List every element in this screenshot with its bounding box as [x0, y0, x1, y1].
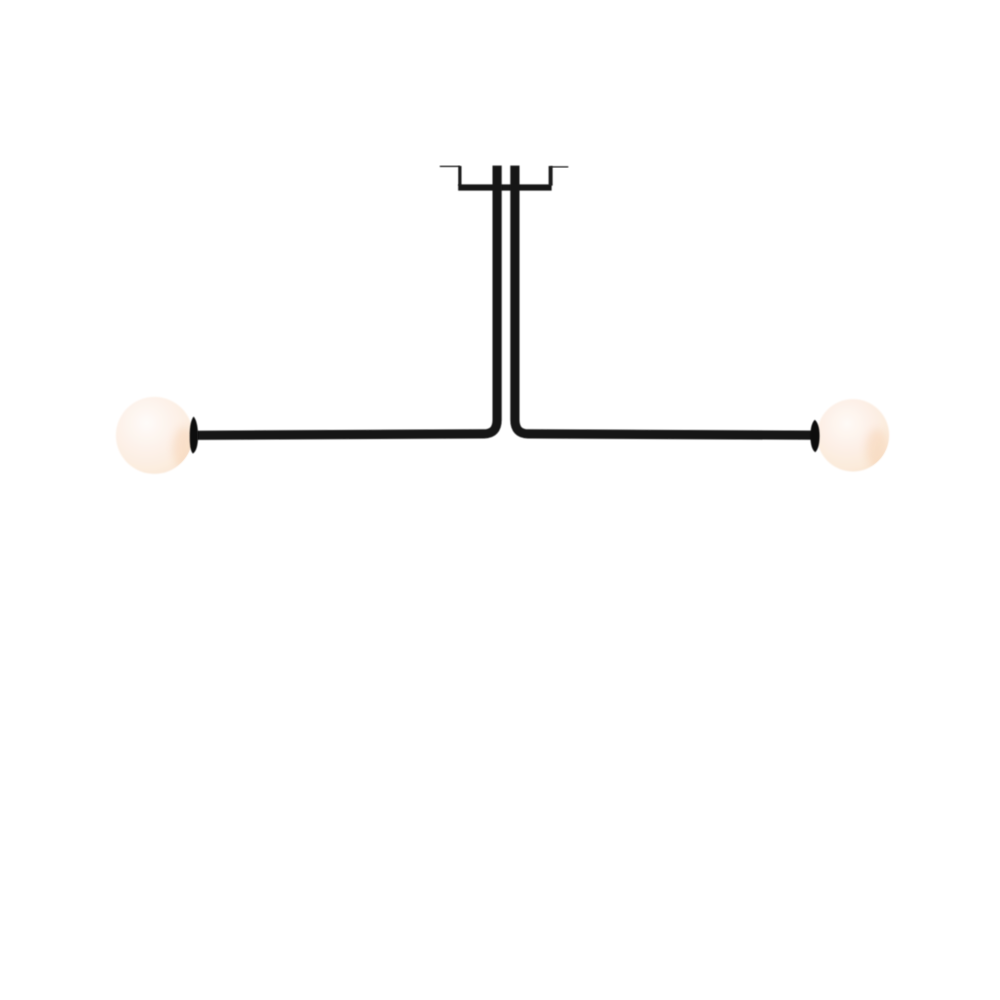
left globe [116, 397, 193, 474]
ceiling bracket crossbar [458, 184, 551, 190]
right stem and arm [515, 166, 813, 436]
left stem and arm [197, 166, 497, 436]
ceiling bracket right vertical [549, 166, 553, 186]
right globe [817, 399, 889, 471]
right socket [810, 420, 819, 453]
left socket [190, 417, 198, 454]
ceiling bracket left vertical [458, 166, 461, 186]
right globe warm blush [866, 429, 888, 469]
ceiling bracket right wing [550, 166, 568, 167]
ceiling bracket left wing [440, 166, 460, 168]
left globe warm blush [173, 427, 195, 469]
